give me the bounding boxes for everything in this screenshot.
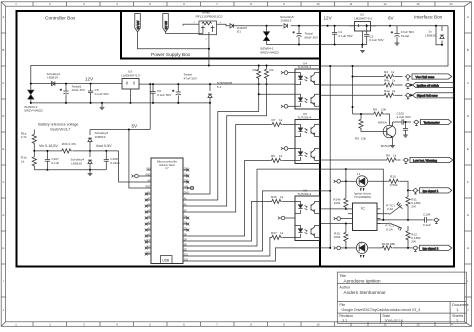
resistor R10 [388, 179, 400, 183]
connector P2 +12V SW [163, 14, 169, 33]
wire R1 to mcu [187, 79, 258, 200]
optocoupler U5 TLP293-4 [295, 120, 320, 164]
svg-text:1k: 1k [279, 118, 283, 122]
svg-text:0,47k: 0,47k [69, 142, 77, 146]
svg-text:Sheets: Sheets [452, 314, 463, 318]
power conn L1 [334, 180, 357, 184]
resistor R12 [406, 226, 410, 248]
svg-text:Anders Stenhammar: Anders Stenhammar [344, 290, 387, 295]
svg-text:G: G [2, 213, 4, 217]
wire R1 node to U4 [259, 93, 295, 95]
wire 12V feed loop left [31, 66, 209, 84]
flag Signal Hall sens [410, 93, 453, 98]
resistor R11 [406, 190, 410, 220]
svg-text:BRZV-N4022: BRZV-N4022 [261, 50, 280, 54]
svg-text:R4: R4 [384, 70, 388, 74]
ground symbol [100, 103, 105, 110]
svg-text:Vout 0-5V: Vout 0-5V [96, 144, 112, 148]
svg-text:File: File [339, 303, 345, 307]
svg-text:1: 1 [456, 308, 458, 312]
svg-text:0.1uF: 0.1uF [51, 161, 59, 165]
svg-text:H: H [2, 246, 4, 250]
svg-text:5V: 5V [132, 124, 139, 129]
power flag U6 mid [278, 216, 295, 220]
TVS D2 BZW04-1 [264, 26, 270, 45]
pullup resistor R1 [257, 66, 261, 80]
svg-text:R6: R6 [271, 154, 275, 158]
svg-text:0,56k: 0,56k [390, 183, 398, 187]
svg-text:Google Drive\E01TinyCad\Aerodu: Google Drive\E01TinyCad\Aeroduino circui… [342, 308, 421, 312]
svg-text:A: A [3, 15, 5, 19]
svg-text:MPSA: MPSA [378, 120, 388, 124]
svg-text:0.1uF: 0.1uF [423, 223, 431, 227]
svg-text:C104: C104 [423, 212, 431, 216]
svg-text:Battery reference voltage: Battery reference voltage [38, 122, 78, 126]
svg-text:10k: 10k [361, 137, 366, 141]
12V rail controller [31, 83, 122, 85]
capacitor tantal 47uF 50V [172, 84, 181, 103]
svg-text:0.1uF 50V: 0.1uF 50V [369, 38, 384, 42]
svg-text:0,3A: 0,3A [386, 227, 393, 231]
svg-text:D1: D1 [237, 29, 241, 33]
svg-text:1k: 1k [391, 70, 395, 74]
svg-text:1k: 1k [280, 231, 284, 235]
wire 6V rail down right [321, 26, 448, 66]
svg-text:Ign signal 1: Ign signal 1 [423, 189, 439, 193]
svg-text:Aeroduino Ignition: Aeroduino Ignition [344, 278, 381, 283]
svg-text:10uF 35V: 10uF 35V [72, 88, 86, 92]
svg-text:0.1uF 50V: 0.1uF 50V [157, 93, 172, 97]
diodes 2x 1N5819 [436, 26, 442, 45]
svg-text:Title: Title [339, 274, 346, 278]
svg-text:2016-02-16: 2016-02-16 [385, 319, 403, 323]
svg-text:R4?: R4? [271, 231, 277, 235]
capacitor C1 [332, 26, 337, 45]
capacitor C5 [88, 84, 93, 103]
svg-text:11: 11 [350, 2, 353, 6]
svg-text:U7: U7 [165, 166, 169, 170]
resistor R3b [61, 149, 73, 153]
wire gnd rail to mcu [187, 103, 210, 194]
svg-text:2W: 2W [411, 240, 416, 244]
svg-text:12V: 12V [324, 16, 333, 21]
svg-text:A: A [467, 15, 469, 19]
relay RE1 [199, 21, 217, 35]
svg-text:12V SW: 12V SW [166, 20, 168, 29]
5V output rail [139, 83, 295, 85]
regulator U2 LM2940T-5.0 [349, 22, 376, 49]
optocoupler U4 TLP293-4 [295, 69, 320, 109]
flag Ign signal 1 [420, 188, 452, 193]
mcu left pin labels [144, 167, 151, 254]
capacitor C103 to ground [403, 122, 408, 137]
svg-text:+: + [293, 30, 295, 34]
mcu right pins [183, 170, 187, 261]
resistor R7 1k [271, 122, 283, 126]
svg-text:RFL21GPB0613C0: RFL21GPB0613C0 [196, 14, 223, 18]
wire border to IC pin1 [321, 208, 348, 210]
svg-text:Ignition off switch: Ignition off switch [417, 83, 440, 87]
svg-text:VIN: VIN [146, 167, 150, 170]
microcontroller U7 Arduino Nano [151, 158, 183, 264]
ground U2 [360, 51, 365, 53]
power flags U4 U5 [281, 71, 295, 75]
svg-text:C: C [2, 81, 4, 85]
capacitor tantal 68uF 35V [293, 26, 302, 45]
svg-text:1k: 1k [279, 154, 283, 158]
wire to ign1 flag [408, 189, 412, 191]
row Vcc Hall sens [353, 76, 384, 78]
junction TVS top [266, 25, 268, 27]
diode D1 1N4007 [230, 24, 233, 28]
wire row169 to C104 row [346, 169, 383, 220]
svg-text:TLP293-4: TLP293-4 [298, 192, 312, 196]
wire mcu to driver [187, 169, 346, 246]
TVS D4 BZW04-1 [28, 84, 34, 103]
title block [337, 272, 468, 323]
svg-text:R4c: R4c [384, 79, 390, 83]
svg-text:E: E [3, 147, 5, 151]
svg-text:Controller Box: Controller Box [45, 16, 76, 22]
wire mcu to ign2 row [187, 248, 330, 261]
svg-text:3.2: 3.2 [342, 319, 347, 323]
svg-text:RST: RST [146, 185, 151, 188]
capacitor 47uF tantal [391, 26, 400, 45]
svg-text:10k: 10k [381, 108, 386, 112]
connector P1 +12V BAT [135, 14, 141, 33]
wire 5V rail from regulator [149, 84, 151, 129]
node Vin rail [34, 150, 60, 152]
wire driver feed [345, 168, 347, 170]
LED L2 [356, 242, 367, 253]
svg-text:R3b: R3b [62, 142, 68, 146]
svg-text:10: 10 [317, 322, 320, 326]
svg-text:R2: R2 [270, 68, 274, 72]
wire relay pin1 [183, 23, 199, 25]
resistor R9 10k [359, 114, 383, 132]
junction 6V [389, 25, 391, 27]
flag Ignition off switch [410, 82, 453, 87]
P-TC1 fuse [377, 202, 403, 215]
svg-text:R10: R10 [390, 175, 396, 179]
svg-text:+: + [60, 88, 62, 92]
svg-text:LM2940T-5.0: LM2940T-5.0 [122, 73, 141, 77]
ground battery ref [88, 170, 93, 176]
flag Tachometer [421, 119, 452, 124]
driver IC pins [348, 209, 381, 224]
power supply box [121, 11, 320, 59]
wire R8 to Q1 base [385, 114, 390, 125]
power flag mcu right [187, 186, 194, 190]
svg-text:TLP293-4: TLP293-4 [298, 65, 312, 69]
svg-text:L2: L2 [359, 241, 363, 245]
wire mcu to R4b [187, 201, 270, 241]
svg-text:6V: 6V [388, 15, 395, 20]
flag Low bat Warning [410, 157, 453, 162]
svg-text:1N5819: 1N5819 [47, 75, 58, 79]
bottom wire battery ref [34, 169, 106, 171]
wire Vout to mcu [119, 151, 147, 182]
wire P1 to relay [138, 32, 209, 49]
svg-text:Date: Date [383, 314, 391, 318]
capacitor tantal 10uF 35V [60, 84, 69, 103]
svg-text:0,3A: 0,3A [387, 207, 394, 211]
svg-text:C: C [467, 81, 469, 85]
controller box [17, 11, 321, 267]
wire R2 to mcu [187, 79, 266, 206]
svg-text:R4a: R4a [384, 89, 390, 93]
svg-text:Ign signal 2: Ign signal 2 [423, 246, 439, 250]
wire mcu to R7 [187, 125, 270, 213]
svg-text:R7: R7 [272, 118, 276, 122]
svg-text:USB: USB [162, 259, 170, 263]
wire 12V feed right segment [209, 65, 320, 67]
svg-text:12V BAT: 12V BAT [137, 20, 140, 30]
driver IC box [353, 203, 378, 231]
wire border to IC pin2 [321, 223, 348, 225]
wire P2 to relay coil [166, 32, 203, 34]
svg-text:R6: R6 [386, 154, 390, 158]
row Signal Hall sens [321, 94, 383, 96]
svg-text:1k: 1k [392, 89, 396, 93]
svg-text:Tantal: Tantal [401, 34, 410, 38]
resistor R15 100k [344, 224, 348, 248]
svg-text:R100,88k: R100,88k [382, 242, 396, 246]
capacitor C2 [363, 26, 370, 45]
svg-text:TC4426EPA: TC4426EPA [354, 195, 372, 199]
junction relay pin2 [208, 48, 210, 50]
svg-text:1k: 1k [393, 154, 397, 158]
5V rail to mcu [90, 129, 150, 131]
P-TC2 fuse [377, 223, 402, 231]
wire Vout rail [73, 150, 119, 152]
row C104 long [377, 219, 425, 221]
resistor R6 1k [270, 158, 282, 162]
svg-text:VoutnVin/3,7: VoutnVin/3,7 [50, 127, 70, 131]
resistor R4b 1k [271, 199, 283, 203]
optocoupler U6 TLP293-4 [295, 196, 320, 241]
svg-text:TLP293-4: TLP293-4 [298, 116, 312, 120]
wire L2 to R13 [368, 247, 381, 249]
svg-text:13: 13 [417, 2, 420, 6]
schottky D3 1N5819 on rail [283, 22, 291, 29]
schottky D5 1N5819 [52, 82, 55, 86]
svg-text:R8: R8 [373, 108, 377, 112]
ground rail [31, 102, 210, 104]
power flag mcu gnd [132, 174, 147, 178]
mcu right pin labels [184, 167, 190, 261]
svg-text:Author: Author [339, 285, 350, 289]
svg-text:1k: 1k [21, 160, 25, 164]
svg-text:H: H [467, 246, 469, 250]
svg-text:BRZV-N4022: BRZV-N4022 [25, 109, 44, 113]
mcu right nc marks [186, 169, 189, 232]
svg-text:2W: 2W [411, 205, 416, 209]
power conn L2 [334, 246, 357, 250]
resistor R13 [381, 246, 393, 250]
svg-text:Low bat. Warning: Low bat. Warning [413, 159, 437, 163]
power conn IC [334, 217, 348, 221]
svg-text:E: E [467, 147, 469, 151]
svg-text:1N5819: 1N5819 [71, 161, 82, 165]
resistor R6b 1k [386, 158, 398, 162]
svg-text:14: 14 [450, 2, 453, 6]
mcu left pins [147, 170, 151, 254]
svg-text:B: B [3, 48, 5, 52]
svg-text:13: 13 [417, 322, 420, 326]
svg-text:100k: 100k [334, 235, 341, 239]
svg-text:R1: R1 [253, 68, 257, 72]
row low bat: wire from U5 [321, 159, 386, 161]
zener D6 [208, 84, 212, 103]
svg-text:2.7k: 2.7k [21, 135, 27, 139]
wire mcu to R4c [187, 237, 270, 256]
resistor R4c 1k [271, 235, 283, 239]
capacitor C108 [104, 151, 109, 170]
svg-text:1k: 1k [392, 79, 396, 83]
svg-text:1k: 1k [280, 195, 284, 199]
svg-text:+: + [391, 30, 393, 34]
capacitor C104 [425, 217, 433, 223]
svg-text:Signal Hall sens: Signal Hall sens [417, 94, 438, 98]
svg-text:D: D [467, 114, 469, 118]
svg-text:+: + [172, 89, 174, 93]
transistor Q1 BC547 [383, 122, 396, 142]
svg-text:R9: R9 [355, 137, 359, 141]
flag Ign signal 2 [420, 245, 452, 250]
svg-text:0.1uF 50V: 0.1uF 50V [338, 34, 353, 38]
svg-text:IC: IC [361, 206, 365, 211]
wire relay pin2 down [208, 35, 210, 66]
svg-text:Tachometer: Tachometer [424, 121, 440, 125]
ground Q1 emitter [390, 142, 395, 148]
svg-text:Revision: Revision [339, 314, 353, 318]
pullup resistor R2 [264, 66, 268, 80]
row tachometer: R8 10k [352, 106, 354, 108]
row Ignition off switch [321, 84, 383, 86]
LED L1 [356, 176, 367, 187]
flag Vcc Hall sens [412, 74, 452, 79]
wire D1 to interface 12V rail [232, 25, 448, 27]
svg-text:Vcc Hall sens: Vcc Hall sens [416, 75, 435, 79]
wire driver vertical [345, 169, 347, 197]
USB connector [161, 256, 173, 264]
svg-text:R4b: R4b [271, 195, 277, 199]
svg-text:D: D [2, 114, 4, 118]
resistor R14 100k [344, 197, 348, 209]
svg-text:12V: 12V [85, 77, 94, 82]
svg-text:1N5819: 1N5819 [425, 33, 436, 37]
svg-text:11: 11 [350, 322, 353, 326]
svg-text:47uF 50V: 47uF 50V [184, 76, 198, 80]
svg-text:Vin 0-18,5V: Vin 0-18,5V [39, 144, 58, 148]
svg-text:68uF 35V: 68uF 35V [305, 36, 319, 40]
svg-text:LM2940T-5.0: LM2940T-5.0 [354, 16, 373, 20]
svg-text:L1: L1 [357, 172, 361, 176]
junction 12V rail [327, 25, 329, 27]
wire 6V branch verticals [329, 66, 331, 248]
capacitor C6 [150, 84, 155, 103]
svg-text:10: 10 [317, 2, 320, 6]
wire mcu to border mid [187, 191, 330, 251]
capacitor C102 series [402, 119, 411, 124]
relay pin numbers [194, 22, 222, 41]
power conn tach [413, 120, 419, 125]
svg-text:5,1: 5,1 [217, 85, 222, 89]
interface box [320, 11, 454, 267]
svg-text:G: G [467, 213, 469, 217]
wire mcu to R6 [187, 160, 270, 236]
capacitor C107 [45, 151, 50, 170]
svg-text:2: 2 [456, 319, 458, 323]
svg-text:Interface Box: Interface Box [414, 15, 443, 21]
wire TVS bottom rail [267, 45, 363, 49]
svg-text:2,2uF 50V: 2,2uF 50V [397, 115, 412, 119]
svg-text:12: 12 [384, 2, 387, 6]
svg-text:BC547: BC547 [381, 144, 391, 148]
wire 5V down to mcu [129, 130, 147, 189]
LED L2 arrows [361, 255, 364, 257]
resistor R1a [32, 130, 36, 151]
svg-text:1N5819: 1N5819 [281, 19, 292, 23]
LED L1 arrows [361, 188, 364, 190]
svg-text:100k: 100k [334, 201, 341, 205]
schottky D7 1N5819 up [88, 130, 92, 151]
resistor R2a [32, 151, 36, 170]
svg-text:1N5819: 1N5819 [95, 135, 106, 139]
regulator U3 LM2940T-5.0 [122, 79, 139, 103]
mcu left nc marks [145, 193, 148, 256]
svg-text:Power Supply Box: Power Supply Box [151, 52, 191, 58]
svg-text:GND: GND [145, 173, 151, 176]
schottky D8 1N5819 down [88, 151, 92, 170]
svg-text:B: B [467, 48, 469, 52]
wire L1 to R10 [368, 180, 388, 182]
svg-text:0.1uF 50V: 0.1uF 50V [95, 92, 110, 96]
power conn ign2 [412, 246, 418, 251]
wire relay to D1 [217, 24, 230, 26]
wire Q1 collector to tach [393, 121, 403, 123]
svg-text:Document: Document [452, 303, 468, 307]
